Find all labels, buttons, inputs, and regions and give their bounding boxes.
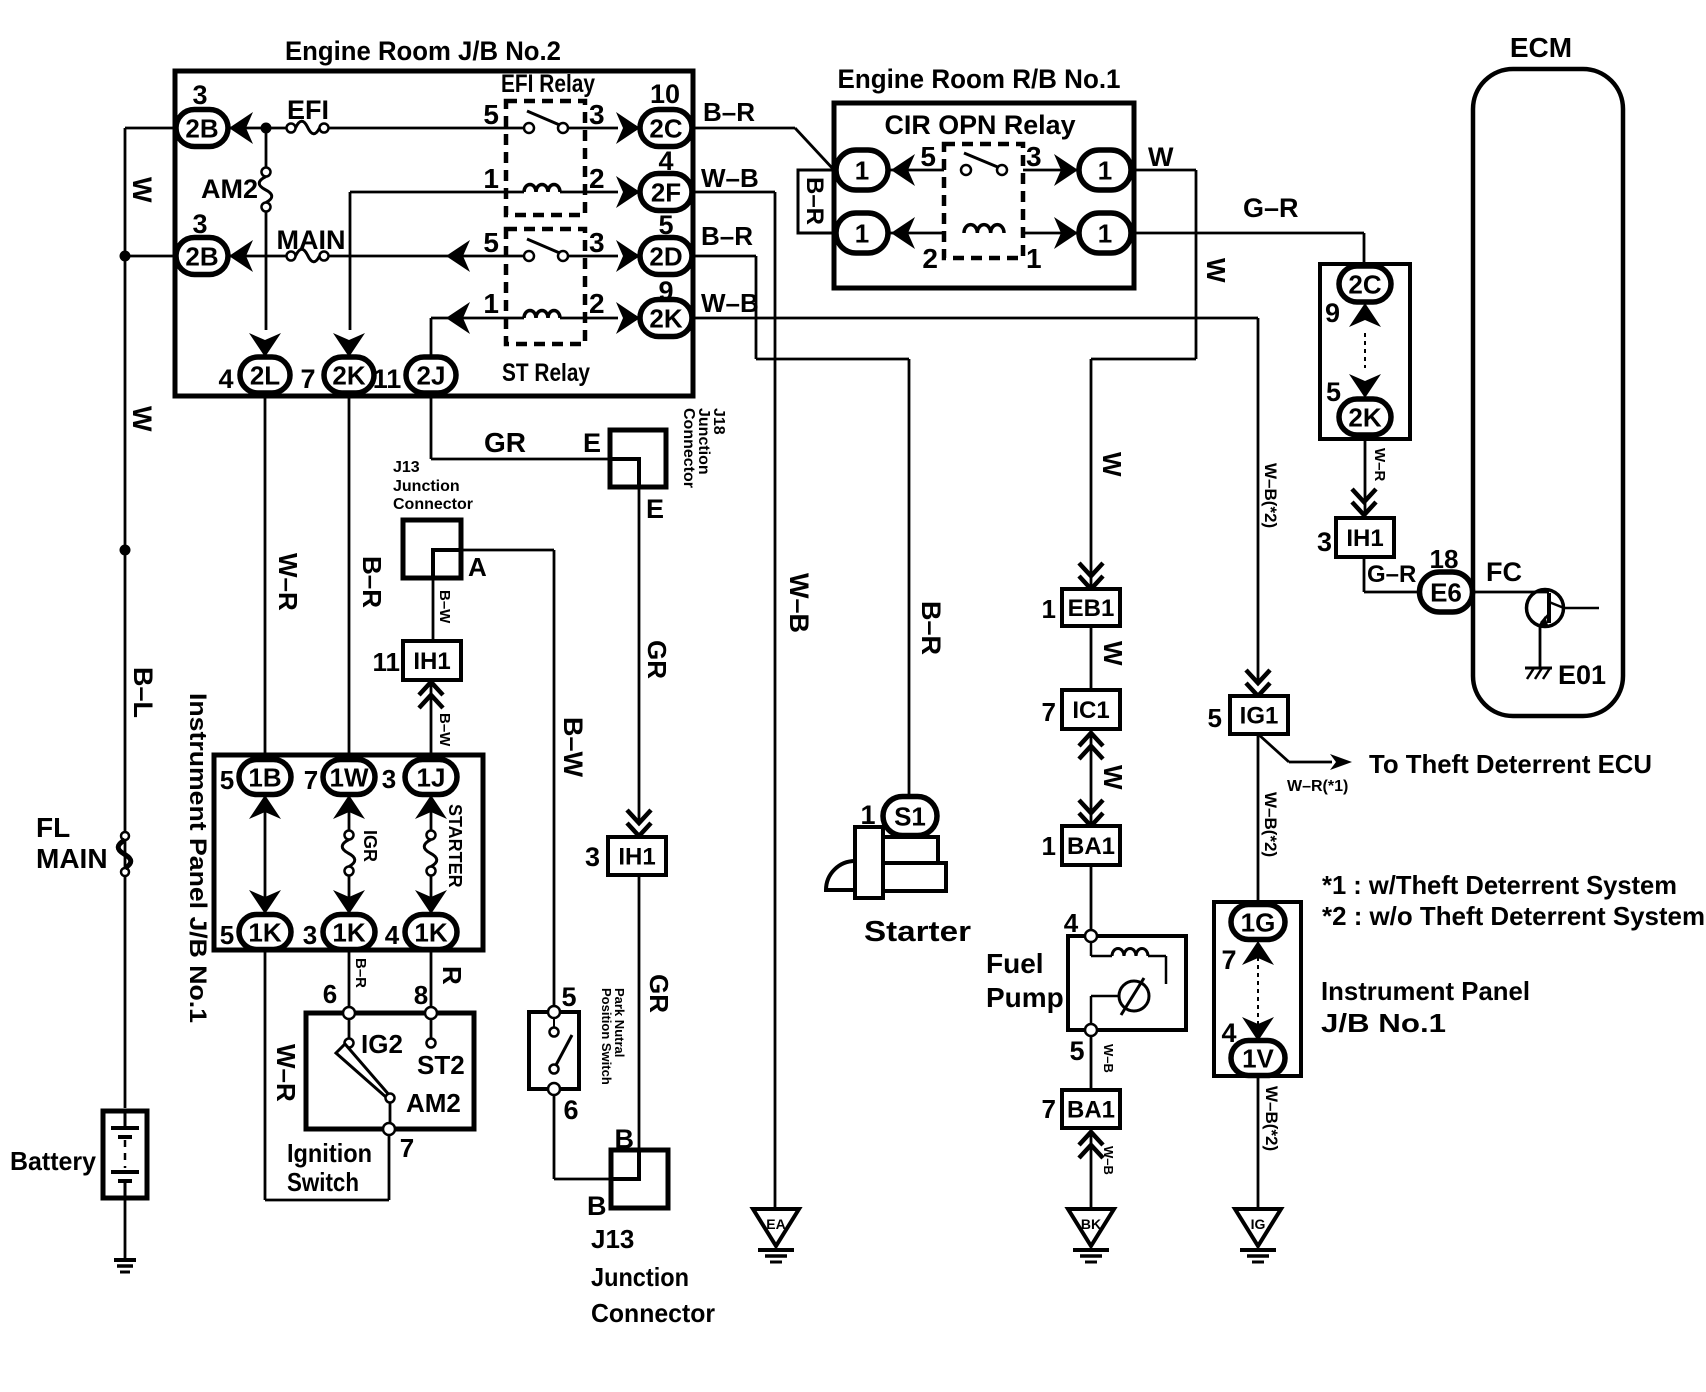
arrow into 2F [616,176,640,208]
svg-text:Starter: Starter [864,916,971,948]
svg-text:Junction: Junction [393,478,460,495]
svg-text:B–W: B–W [558,717,588,778]
svg-text:EFI: EFI [287,95,329,125]
svg-text:Junction: Junction [591,1262,689,1292]
svg-text:MAIN: MAIN [36,843,108,874]
svg-text:EA: EA [766,1216,785,1232]
wire: W IC1 to BA1 [1079,733,1103,759]
svg-text:7: 7 [304,765,318,795]
arrow into IG1 [1246,670,1270,696]
ignition pin 8 node [425,1007,437,1019]
wire: GR from IH1 to J13 B [638,875,641,1150]
svg-text:W: W [1098,641,1128,666]
wire: to theft deterrent ECU [1258,734,1289,762]
svg-text:1K: 1K [332,917,365,947]
wire: battery feed left vertical W / B-L [124,128,127,1108]
svg-text:FC: FC [1486,557,1522,587]
svg-text:W–B: W–B [701,163,759,193]
svg-text:7: 7 [1042,1094,1056,1124]
arrow into 2B (EFI) [229,112,253,144]
svg-text:1: 1 [855,155,869,185]
svg-text:B–R: B–R [703,97,755,127]
svg-text:Fuel: Fuel [986,948,1044,979]
wire: W-B 1V to IG ground [1257,1076,1260,1209]
svg-text:6: 6 [563,1095,578,1125]
connector 1 (right, coil row) [1079,213,1131,253]
svg-text:4: 4 [1064,908,1079,938]
svg-text:1: 1 [1098,155,1112,185]
svg-text:W–B: W–B [701,288,759,318]
svg-text:2L: 2L [250,360,280,390]
svg-text:FL: FL [36,812,70,843]
svg-text:B–R: B–R [357,556,387,608]
svg-text:3: 3 [192,80,207,110]
relay: CIR OPN Relay dashed box [944,144,1023,258]
svg-text:Switch: Switch [287,1167,359,1197]
ignition pin 6 node [343,1007,355,1019]
node: junction dot EFI row [261,123,272,134]
internal wire col 1 [264,795,267,914]
wire: B-W from IH1 11 to 1J [430,680,433,760]
svg-text:S1: S1 [894,801,926,831]
Instrument Panel J/B No.1 (right) box [1214,902,1301,1076]
svg-text:Instrument Panel J/B No.1: Instrument Panel J/B No.1 [184,693,211,1023]
svg-text:2J: 2J [417,360,446,390]
svg-text:6: 6 [323,979,337,1009]
svg-text:1G: 1G [1241,907,1276,937]
svg-text:5: 5 [220,765,234,795]
svg-text:4: 4 [1221,1018,1236,1048]
svg-text:AM2: AM2 [406,1088,461,1118]
svg-text:2C: 2C [649,113,682,143]
svg-text:B–R: B–R [701,221,753,251]
arrow into right 1 (coil) [1054,217,1078,249]
svg-text:W: W [1098,765,1128,790]
svg-text:11: 11 [373,647,401,677]
svg-text:8: 8 [414,980,428,1010]
wire: B-W from J13 A to park switch [461,549,554,552]
wire: B-R from 2K to 1W [348,393,351,760]
svg-text:W: W [127,177,157,203]
svg-text:W–B(*2): W–B(*2) [1262,1086,1281,1151]
junction connector J13 (A) box [403,520,461,578]
svg-text:IH1: IH1 [1346,525,1383,552]
svg-text:R: R [437,966,467,985]
svg-text:7: 7 [1221,945,1236,975]
wire: B-W from J13 A down to IH1 pin 11 [432,578,435,641]
svg-text:IH1: IH1 [618,844,655,871]
wire: B-R from 2C to CIR OPN relay [692,127,795,130]
svg-text:J13: J13 [393,459,420,476]
internal fuse col 3 (STARTER) [430,795,433,831]
svg-text:3: 3 [1026,141,1042,172]
Instrument Panel J/B No.1 box [214,755,483,950]
wire: B-R from 1K3 to ignition pin 6 [348,950,351,1038]
svg-text:3: 3 [589,227,605,258]
svg-text:ST Relay: ST Relay [502,359,590,387]
arrow up to 2C [1349,303,1381,327]
arrow down to 2K [1349,374,1381,398]
svg-text:3: 3 [1317,527,1332,557]
svg-text:1J: 1J [417,762,446,792]
svg-text:CIR OPN Relay: CIR OPN Relay [885,110,1076,140]
arrow into left 1 (coil) [891,217,915,249]
svg-text:5: 5 [220,920,234,950]
arrow into right 1 (switch) [1054,154,1078,186]
svg-text:IG: IG [1251,1216,1266,1232]
wire: ST coil row [431,317,524,320]
svg-text:5: 5 [483,99,499,130]
svg-text:2K: 2K [649,303,682,333]
svg-text:W–B(*2): W–B(*2) [1261,463,1280,528]
wire: EFI row inside J/B No.2 [228,127,291,130]
wire: R from 1K4 to ignition pin 8 [430,950,433,1038]
svg-text:Position Switch: Position Switch [599,988,614,1085]
fuel pump pin 4 node [1085,930,1097,942]
ECM box [1473,69,1623,716]
svg-text:B: B [587,1191,607,1221]
svg-text:5: 5 [1069,1036,1084,1066]
ignition switch box [306,1013,474,1129]
svg-text:IH1: IH1 [413,648,450,675]
svg-text:5: 5 [920,141,936,172]
arrow into 2D [616,240,640,272]
svg-text:2K: 2K [1348,402,1381,432]
starter body [883,837,938,863]
ground E01 inside ECM [1525,667,1552,670]
svg-text:1: 1 [1026,243,1042,274]
svg-text:1: 1 [1098,218,1112,248]
wire: BA1 to fuel pump pin 4 [1090,865,1093,936]
fuse MAIN [287,252,296,261]
wire: FC into ECM [1472,591,1549,594]
svg-text:B–R: B–R [801,177,828,225]
svg-text:1: 1 [1042,831,1056,861]
wire: W-R from 2L to 1B [264,393,267,760]
wire: EFI relay coil feed vertical to 2K [349,192,352,330]
wire: from park switch 6 to J13 B [553,1095,556,1179]
B-R tag box [798,170,833,233]
svg-text:1V: 1V [1242,1043,1274,1073]
svg-text:G–R: G–R [1367,561,1416,588]
arrow on ST coil row mid-wire [446,302,470,334]
svg-text:B–L: B–L [128,667,158,718]
svg-text:1: 1 [483,288,499,319]
svg-text:J/B No.1: J/B No.1 [1321,1008,1446,1038]
svg-text:GR: GR [644,974,674,1013]
svg-text:3: 3 [382,764,396,794]
node: junction dot mid left wire [120,545,131,556]
wire: MAIN row [228,255,291,258]
wire: AM2 vertical branch [265,128,268,168]
connector 1 (left, switch row) [836,150,888,190]
svg-text:AM2: AM2 [201,174,258,204]
transistor inside ECM [1527,590,1564,627]
arrow into 2L (down) [249,333,281,357]
svg-text:IG1: IG1 [1240,703,1279,730]
svg-text:5: 5 [561,982,576,1012]
internal arrows 1G-1V [1257,941,1259,1041]
wire: W-R from 2K to IH1 [1364,435,1367,516]
svg-text:BA1: BA1 [1067,833,1115,860]
wire: W-R from 1K5 to ignition AM2 pin 7 [264,950,267,1200]
wire: EFI coil row [350,191,524,194]
svg-text:5: 5 [1208,703,1222,733]
ground IG [1235,1209,1281,1246]
arrow on MAIN row mid-wire [446,240,470,272]
wire: W EB1 to IC1 [1090,626,1093,690]
arrow into left 1 (switch) [891,154,915,186]
svg-text:2: 2 [589,163,605,194]
svg-text:EFI Relay: EFI Relay [501,70,595,98]
svg-text:E: E [583,428,601,458]
svg-text:10: 10 [650,79,680,109]
svg-text:GR: GR [484,427,526,458]
svg-text:MAIN: MAIN [277,225,346,255]
arrow into 2K [616,302,640,334]
svg-text:3: 3 [585,842,600,872]
svg-text:B–R: B–R [916,601,946,655]
svg-text:1: 1 [855,218,869,248]
svg-text:J13: J13 [591,1224,634,1254]
ignition ST2 terminal [427,1039,436,1048]
connector box 2C/2K [1320,264,1410,439]
svg-text:Engine Room R/B No.1: Engine Room R/B No.1 [838,64,1121,94]
arrow into 2C [616,112,640,144]
svg-text:7: 7 [1042,697,1056,727]
svg-text:B–W: B–W [436,590,453,624]
svg-text:5: 5 [483,227,499,258]
svg-text:E: E [646,494,664,524]
svg-text:1: 1 [483,163,499,194]
svg-text:*1 : w/Theft Deterrent System: *1 : w/Theft Deterrent System [1322,870,1677,900]
ignition switch blade [336,1044,390,1098]
svg-text:BK: BK [1081,1216,1101,1232]
relay: ST Relay dashed box [506,229,585,344]
fuel pump box [1068,936,1186,1030]
svg-text:W: W [1148,142,1174,172]
svg-text:Connector: Connector [591,1298,715,1328]
svg-text:STARTER: STARTER [445,804,465,888]
svg-text:E01: E01 [1558,660,1606,690]
svg-text:1B: 1B [248,762,281,792]
fuel pump pin 5 node [1085,1024,1097,1036]
svg-text:2K: 2K [332,360,365,390]
ground BK [1068,1209,1114,1246]
svg-text:ST2: ST2 [417,1050,465,1080]
svg-text:A: A [468,552,487,582]
svg-text:B–W: B–W [436,713,453,747]
wire: emitter to E01 ground [1539,625,1542,667]
svg-text:ECM: ECM [1510,32,1572,63]
ground EA [753,1209,799,1246]
svg-text:Connector: Connector [393,496,473,513]
svg-text:W–R: W–R [273,553,303,611]
wire: W-B pump to BA1 7 [1090,1036,1093,1090]
junction block: Engine Room J/B No.2 box [175,71,693,396]
svg-text:2D: 2D [649,241,682,271]
svg-text:Battery: Battery [10,1146,97,1176]
svg-text:IC1: IC1 [1072,697,1109,724]
svg-text:Engine Room J/B No.2: Engine Room J/B No.2 [285,36,561,66]
svg-text:4: 4 [218,364,233,394]
svg-text:3: 3 [303,920,317,950]
svg-text:*2 : w/o Theft Deterrent Syste: *2 : w/o Theft Deterrent System [1322,901,1705,931]
svg-text:W–B: W–B [784,573,814,633]
ignition AM2 terminal [386,1094,395,1103]
fuse EFI [287,124,296,133]
svg-text:2: 2 [922,243,938,274]
svg-text:W–R: W–R [271,1044,301,1102]
svg-text:W–B: W–B [1101,1044,1116,1073]
wire: G-R from IH1 to E6 [1363,557,1366,592]
svg-text:Connector: Connector [680,408,697,488]
svg-text:G–R: G–R [1243,193,1299,223]
svg-text:W: W [127,406,157,432]
svg-text:W–B: W–B [1101,1146,1116,1175]
ignition pin 7 node [383,1123,395,1135]
svg-text:9: 9 [1325,298,1340,328]
svg-text:11: 11 [373,364,402,394]
svg-text:2B: 2B [185,241,218,271]
wire: GR from 2J to J18 [430,393,433,459]
relay block: R/B No.1 box [834,103,1134,288]
svg-text:2F: 2F [651,177,681,207]
svg-text:W–R(*1): W–R(*1) [1287,778,1348,795]
svg-text:3: 3 [589,99,605,130]
wire: W-B from 2F down to EA ground [692,191,775,194]
svg-text:W–R: W–R [1371,448,1388,482]
fuse AM2 [262,168,271,177]
fuel pump internals [1090,942,1093,956]
ground below battery [114,1258,136,1262]
svg-text:2C: 2C [1348,269,1381,299]
svg-text:To Theft Deterrent ECU: To Theft Deterrent ECU [1369,749,1652,779]
svg-text:2B: 2B [185,113,218,143]
svg-text:2: 2 [589,288,605,319]
svg-text:B–R: B–R [352,958,369,988]
svg-text:1K: 1K [414,917,447,947]
connector 1 (left, coil row) [836,213,888,253]
svg-text:IG2: IG2 [361,1029,403,1059]
connector 1 (right, switch row) [1079,150,1131,190]
svg-text:W: W [1097,452,1127,477]
svg-text:IGR: IGR [360,830,380,862]
arrow into 2K bottom (down) [333,333,365,357]
svg-text:Ignition: Ignition [287,1138,372,1168]
arrow into 2B (MAIN) [229,240,253,272]
park neutral position switch box [529,1012,579,1089]
wire: B-R from 2D down to starter S1 [692,255,756,258]
svg-text:1K: 1K [248,917,281,947]
wire: W-B BA1 to BK ground [1079,1132,1103,1158]
svg-text:1: 1 [1042,594,1056,624]
svg-text:Pump: Pump [986,982,1064,1013]
arrow into EB1 [1079,563,1103,589]
svg-text:BA1: BA1 [1067,1097,1115,1124]
svg-text:Instrument Panel: Instrument Panel [1321,976,1530,1006]
svg-text:EB1: EB1 [1068,595,1115,622]
wire: ST relay coil feed vertical to 2J [430,318,433,358]
wires CIR OPN relay rows [888,169,944,172]
wire: W-B from 2K to IG1 [692,317,1258,320]
wire: GR from J18 down to IH1 pin 3 [638,487,641,824]
svg-text:1W: 1W [330,762,369,792]
svg-text:E6: E6 [1430,577,1462,607]
svg-text:4: 4 [385,920,400,950]
ignition IG2 terminal [345,1039,354,1048]
svg-text:GR: GR [642,640,672,679]
svg-text:5: 5 [1326,377,1341,407]
svg-text:7: 7 [300,364,315,394]
svg-text:W–B(*2): W–B(*2) [1261,792,1280,857]
svg-text:7: 7 [400,1133,414,1163]
svg-text:3: 3 [192,209,207,239]
internal fuse col 2 (IGR) [348,795,351,831]
node: junction dot on MAIN row [120,251,131,262]
wire: battery to ground [124,1198,127,1260]
svg-text:W: W [1201,258,1231,283]
wire: W-B IG1 to 1G [1257,734,1260,904]
